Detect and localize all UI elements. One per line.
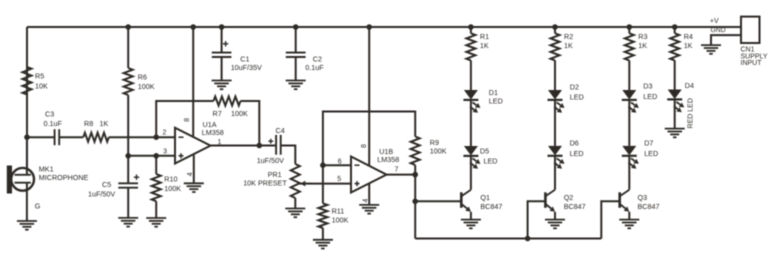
wire Q3 base riser: [601, 201, 620, 238]
capacitor C1: [212, 53, 232, 57]
svg-text:LED: LED: [570, 149, 584, 158]
pin 3 label: [163, 149, 167, 156]
label GND: [711, 27, 726, 34]
node R2 rail tap: [552, 24, 558, 30]
svg-text:C5: C5: [102, 180, 111, 189]
svg-text:7: 7: [395, 166, 399, 173]
wire +V top rail: [27, 26, 741, 28]
svg-text:100K: 100K: [164, 184, 181, 193]
node pin8 U1B rail tap: [366, 24, 372, 30]
connector CN1: [741, 17, 760, 43]
svg-text:8: 8: [361, 144, 368, 148]
svg-text:1uF/50V: 1uF/50V: [88, 190, 115, 199]
svg-text:D3: D3: [643, 82, 652, 91]
label D4: [685, 81, 694, 90]
op-amp U1A: [175, 128, 211, 164]
svg-text:10K PRESET: 10K PRESET: [243, 179, 287, 188]
node Q1 base tap: [412, 199, 418, 205]
wire U1A pin8 to rail: [192, 27, 194, 138]
label R8 value: [84, 119, 108, 128]
node C1 rail tap: [219, 24, 225, 30]
wire PR1 to ground: [294, 198, 296, 209]
capacitor C5: [118, 156, 138, 218]
wire C1 lead: [221, 27, 223, 81]
LED D3: [622, 90, 639, 113]
ground C1: [212, 81, 232, 90]
label C4 value: [257, 156, 284, 165]
pin 1 label: [218, 139, 222, 146]
svg-text:100K: 100K: [430, 147, 447, 156]
label D6: [570, 138, 584, 158]
svg-text:1K: 1K: [100, 119, 109, 128]
label G: [35, 202, 41, 211]
svg-text:100K: 100K: [138, 82, 155, 91]
transistor Q1: [461, 190, 471, 212]
svg-text:R5: R5: [35, 72, 44, 81]
svg-text:1K: 1K: [564, 41, 573, 50]
label R3 value: [638, 32, 647, 50]
wiper arrow PR1: [300, 181, 312, 187]
resistor R1: [466, 27, 475, 90]
wire R8 to pin2: [109, 136, 175, 138]
label U1A: [202, 120, 224, 137]
wire input line mic to C3: [27, 136, 55, 138]
node R5-C3-MK1 junction: [24, 134, 30, 140]
ground CN1: [701, 45, 721, 54]
wire wiper to pin5: [299, 183, 351, 185]
svg-text:R1: R1: [480, 32, 489, 41]
node R1 rail tap: [468, 24, 474, 30]
wire output down to bottom rail: [414, 175, 416, 239]
resistor R8: [83, 133, 109, 142]
label R7 value: [213, 109, 248, 118]
svg-text:8: 8: [184, 118, 191, 122]
wire U1B feedback loop: [323, 112, 415, 166]
label R5 value: [35, 72, 48, 91]
ground mic G: [17, 221, 37, 230]
wire Q3 emitter stem: [628, 212, 630, 220]
svg-text:D4: D4: [685, 81, 694, 90]
resistor R3: [625, 27, 634, 90]
label R2 value: [564, 32, 573, 50]
svg-text:RED LED: RED LED: [688, 98, 695, 128]
label R1 value: [480, 32, 489, 50]
svg-text:3: 3: [163, 149, 167, 156]
svg-text:BC847: BC847: [638, 202, 660, 211]
LED D7: [622, 146, 639, 169]
pin 8 label U1B: [361, 144, 368, 148]
svg-text:D6: D6: [570, 138, 579, 147]
node C2 rail tap: [293, 24, 299, 30]
svg-text:+V: +V: [710, 18, 719, 25]
wire Q1 base: [415, 200, 461, 202]
svg-text:1uF/50V: 1uF/50V: [257, 156, 284, 165]
wire U1A feedback loop: [156, 101, 259, 146]
svg-text:MICROPHONE: MICROPHONE: [39, 173, 89, 182]
resistor R4: [670, 27, 679, 90]
wire D4 to ground: [674, 100, 676, 129]
ground C5: [118, 218, 138, 227]
wire pin3 line: [128, 155, 175, 157]
svg-text:1K: 1K: [480, 41, 489, 50]
label D5: [480, 147, 498, 166]
resistor R2: [551, 27, 560, 90]
label CN1: [741, 47, 768, 67]
preset PR1: [291, 164, 300, 198]
LED D2: [548, 90, 565, 113]
label R11 value: [332, 207, 349, 225]
wire bottom rail: [415, 238, 601, 240]
capacitor C3: [55, 129, 60, 145]
svg-text:0.1uF: 0.1uF: [44, 119, 63, 128]
svg-text:R10: R10: [164, 175, 177, 184]
label Q3: [638, 193, 660, 211]
svg-text:D5: D5: [480, 147, 489, 156]
wire U1B pin4 stem: [368, 183, 370, 205]
wire D2-D6: [554, 100, 556, 146]
label C5 plus: [134, 175, 139, 180]
label U1B: [377, 147, 399, 164]
svg-text:0.1uF: 0.1uF: [305, 63, 324, 72]
wire D5 to Q1 collector: [470, 156, 472, 190]
svg-text:100K: 100K: [231, 109, 248, 118]
pin 2 label: [163, 130, 167, 137]
svg-text:4: 4: [187, 172, 194, 176]
svg-text:R2: R2: [564, 32, 573, 41]
ground PR1: [285, 209, 305, 218]
label Q1: [480, 193, 502, 211]
label C3 value: [44, 109, 63, 128]
resistor R9: [411, 137, 420, 175]
svg-text:R8: R8: [84, 119, 93, 128]
svg-text:R11: R11: [332, 207, 345, 216]
node R6-C5-pin3 junction: [125, 153, 131, 159]
label C2 value: [305, 55, 324, 72]
svg-text:LED: LED: [570, 93, 584, 102]
capacitor C4: [276, 135, 281, 155]
svg-text:GND: GND: [711, 27, 726, 34]
svg-text:G: G: [35, 202, 41, 211]
svg-text:D7: D7: [644, 138, 653, 147]
ground R10: [146, 218, 166, 227]
node R6 rail tap: [125, 24, 131, 30]
svg-text:C3: C3: [45, 109, 54, 118]
wire D7 to Q3 collector: [628, 156, 630, 190]
svg-text:D2: D2: [570, 83, 579, 92]
node R4 rail tap: [672, 24, 678, 30]
pin 4 label U1B: [363, 199, 370, 203]
wire U1B output: [387, 174, 416, 176]
resistor R6: [124, 68, 133, 95]
capacitor C2: [286, 53, 306, 57]
LED D4: [667, 90, 684, 113]
svg-text:LED: LED: [644, 149, 658, 158]
ground U1B pin4: [359, 205, 379, 214]
svg-text:10uF/35V: 10uF/35V: [231, 63, 262, 72]
svg-text:1: 1: [218, 139, 222, 146]
pin 5 label: [337, 176, 341, 183]
label D1: [489, 88, 503, 105]
label +V: [710, 18, 719, 25]
label D3: [643, 82, 657, 101]
ground Q1: [461, 220, 481, 229]
pin 4 label U1A: [187, 172, 194, 176]
svg-text:R7: R7: [213, 109, 222, 118]
svg-text:LM358: LM358: [202, 128, 224, 137]
resistor R10: [152, 156, 161, 218]
node R7-output junction: [257, 143, 263, 149]
node R10 tap on pin3 line: [153, 153, 159, 159]
wire Q2 base riser: [528, 201, 546, 238]
wire Q2 emitter stem: [554, 212, 556, 220]
svg-text:Q2: Q2: [564, 193, 574, 202]
wire D1-D5: [470, 100, 472, 146]
wire D3-D7: [628, 100, 630, 146]
svg-text:R6: R6: [138, 73, 147, 82]
transistor Q3: [620, 190, 630, 212]
wire U1A output: [211, 145, 277, 147]
node Q2 base rail tap: [525, 236, 531, 242]
svg-text:LED: LED: [489, 96, 503, 105]
svg-text:5: 5: [337, 176, 341, 183]
label D7: [644, 138, 658, 158]
svg-text:2: 2: [163, 130, 167, 137]
label R4 value: [684, 32, 693, 50]
wire R11 column: [322, 165, 324, 240]
label R9 value: [430, 138, 447, 156]
wire R6 column: [127, 27, 129, 156]
svg-text:LM358: LM358: [377, 155, 399, 164]
resistor R7: [214, 97, 241, 106]
svg-text:1K: 1K: [684, 41, 693, 50]
svg-text:C4: C4: [276, 126, 285, 135]
wire U1A pin4 stem: [193, 155, 195, 183]
label Q2: [564, 193, 586, 211]
svg-text:1K: 1K: [638, 41, 647, 50]
svg-text:R4: R4: [684, 32, 693, 41]
node pin6 junction: [320, 162, 326, 168]
ground D4: [665, 129, 685, 138]
ground Q2: [545, 220, 565, 229]
pin 7 label: [395, 166, 399, 173]
node feedback tap on pin2 line: [153, 134, 159, 140]
label MK1: [39, 164, 89, 181]
microphone MK1: [7, 137, 34, 221]
wire GND to CN1: [711, 35, 741, 45]
wire C3 to R8: [59, 136, 83, 138]
svg-text:4: 4: [363, 199, 370, 203]
svg-text:LED: LED: [643, 92, 657, 101]
label D2: [570, 83, 584, 102]
ground U1A pin4: [184, 183, 204, 192]
resistor R5: [23, 67, 32, 95]
wire Q1 emitter stem: [470, 212, 472, 220]
svg-text:R3: R3: [638, 32, 647, 41]
label C5 value: [88, 180, 115, 199]
svg-text:LED: LED: [484, 156, 498, 165]
svg-text:INPUT: INPUT: [741, 60, 763, 67]
label C1 plus: [223, 41, 228, 46]
LED D5: [463, 146, 480, 169]
svg-text:Q3: Q3: [638, 193, 648, 202]
svg-text:10K: 10K: [35, 81, 48, 90]
wire C2 lead: [295, 27, 297, 81]
node pin8 U1A rail tap: [190, 24, 196, 30]
ground C2: [286, 81, 306, 90]
svg-text:BC847: BC847: [480, 202, 502, 211]
label PR1: [243, 170, 287, 188]
wire pin6 line: [323, 164, 351, 166]
svg-text:Q1: Q1: [480, 193, 490, 202]
resistor R11: [318, 203, 327, 228]
svg-text:6: 6: [338, 159, 342, 166]
svg-text:100K: 100K: [332, 216, 349, 225]
wire left column R5/mic: [26, 27, 28, 168]
label RED LED: [688, 98, 695, 128]
label C4: [276, 126, 285, 135]
pin 6 label: [338, 159, 342, 166]
svg-text:BC847: BC847: [564, 202, 586, 211]
label R6 value: [138, 73, 155, 92]
label C1 value: [231, 55, 262, 72]
label C4 plus: [268, 139, 273, 144]
wire U1B pin8 to rail: [368, 27, 370, 166]
node R9-output junction: [412, 172, 418, 178]
wire C4 to PR1: [281, 146, 296, 165]
ground R11: [313, 240, 333, 249]
op-amp U1B: [351, 157, 387, 193]
wire D6 to Q2 collector: [554, 156, 556, 190]
transistor Q2: [545, 190, 555, 212]
pin 8 label U1A: [184, 118, 191, 122]
node R3 rail tap: [627, 24, 633, 30]
LED D1: [463, 90, 480, 113]
LED D6: [548, 146, 565, 169]
label R10 value: [164, 175, 181, 194]
ground Q3: [619, 220, 639, 229]
